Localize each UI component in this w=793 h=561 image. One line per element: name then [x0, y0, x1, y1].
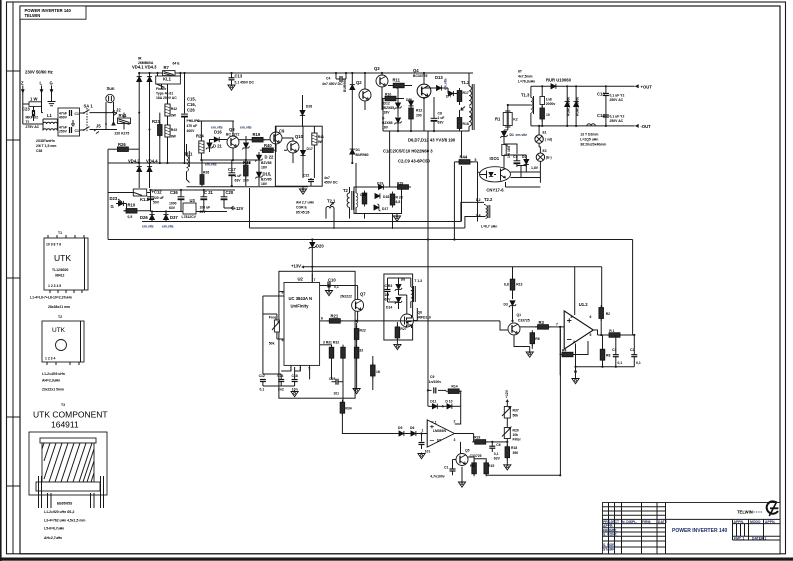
svg-text:em.vite: em.vite: [205, 163, 217, 167]
zener D3: [504, 301, 517, 323]
svg-text:+13V: +13V: [291, 264, 301, 269]
svg-text:R14: R14: [451, 384, 457, 388]
opamp output wire: [454, 433, 474, 435]
svg-text:PROJECT: PROJECT: [603, 520, 620, 524]
svg-text:0,1: 0,1: [494, 452, 499, 456]
svg-text:R21: R21: [331, 314, 339, 319]
diode D1: [350, 148, 369, 157]
capacitor C10a: [221, 190, 234, 208]
svg-text:28x38x21 mm: 28x38x21 mm: [48, 305, 70, 309]
trimmer R20: [502, 427, 521, 447]
svg-text:TELWIN: TELWIN: [737, 510, 753, 515]
svg-text:C16,: C16,: [187, 102, 196, 107]
rectifier diode RURU10060 b: [574, 86, 580, 126]
bus B: [108, 240, 633, 335]
margin tick: [7, 277, 21, 279]
switch SA1: [83, 104, 117, 133]
winding T2.1: [326, 199, 336, 212]
bottom wire U1.2: [576, 366, 635, 368]
svg-text:23x22x1 5mm: 23x22x1 5mm: [42, 388, 64, 392]
svg-text:RUR U10060: RUR U10060: [546, 78, 572, 83]
svg-text:R17: R17: [463, 91, 469, 95]
svg-text:UTK: UTK: [54, 253, 71, 263]
svg-text:10 9 8 7 6: 10 9 8 7 6: [46, 243, 61, 247]
T2 pin ticks: [47, 362, 79, 365]
capacitor C10b: [320, 278, 339, 296]
svg-text:G: G: [111, 204, 114, 209]
svg-text:101: 101: [425, 450, 431, 454]
svg-text:L: L: [40, 81, 43, 86]
capacitor C6: [489, 442, 500, 461]
svg-text:R12: R12: [416, 109, 422, 113]
svg-text:em.vite: em.vite: [142, 225, 154, 229]
svg-text:1 uF: 1 uF: [438, 116, 445, 120]
transformer T2.2: [476, 197, 498, 229]
svg-text:64 E: 64 E: [173, 62, 181, 66]
svg-text:1 W: 1 W: [30, 97, 37, 102]
T3 bobbin bottom bar: [36, 482, 100, 491]
svg-text:UTK COMPONENT: UTK COMPONENT: [33, 410, 108, 420]
resistor R6: [530, 330, 540, 349]
diode VD4.1: [137, 73, 142, 113]
resistor R1b: [607, 329, 636, 337]
svg-text:R38: R38: [243, 160, 251, 165]
svg-text:AH 2,7 uHn: AH 2,7 uHn: [296, 201, 314, 205]
svg-text:9W: 9W: [171, 135, 177, 139]
ground R6: [526, 351, 533, 357]
ground R18: [504, 464, 511, 470]
svg-text:400V: 400V: [59, 116, 68, 120]
-OUT arrow: [635, 124, 651, 129]
svg-text:R27: R27: [400, 327, 406, 331]
resistor R42 3W: [165, 84, 177, 163]
diode D17: [374, 204, 388, 211]
svg-text:390: 390: [513, 451, 519, 455]
svg-text:R18: R18: [463, 122, 469, 126]
svg-text:UTK: UTK: [52, 327, 66, 334]
svg-text:STAMP.: STAMP.: [603, 548, 615, 552]
resistor R19b: [239, 132, 266, 142]
resistor R2 opto: [502, 144, 511, 168]
op-amp U1.2: [564, 302, 593, 349]
svg-text:1: 1: [422, 429, 424, 433]
svg-text:L1-2=4G9 uHn: L1-2=4G9 uHn: [42, 372, 65, 376]
svg-text:D17: D17: [382, 207, 388, 211]
svg-text:R41: R41: [318, 135, 324, 139]
svg-text:8: 8: [571, 315, 573, 319]
title box top-left: [20, 6, 86, 19]
svg-text:D1: D1: [356, 148, 360, 152]
svg-text:63V: 63V: [385, 298, 392, 302]
svg-text:D6,D7,D12 43 YV3/8 190: D6,D7,D12 43 YV3/8 190: [408, 138, 456, 143]
snubber cap 1n8: [540, 86, 555, 108]
svg-text:13 T D2mm: 13 T D2mm: [580, 133, 598, 137]
diode D28: [300, 95, 312, 126]
zener D15: [255, 172, 271, 187]
op-amp U1.1: [422, 420, 456, 448]
svg-text:290: 290: [416, 114, 422, 118]
svg-text:L5-6=6,7uHn: L5-6=6,7uHn: [44, 527, 64, 531]
opto aux wires: [504, 144, 541, 187]
resistor R40: [260, 143, 276, 152]
svg-text:KL1: KL1: [163, 77, 172, 82]
bus feed vertical: [249, 188, 251, 228]
svg-text:6,8: 6,8: [396, 200, 401, 204]
svg-text:BUR960: BUR960: [343, 79, 347, 92]
svg-text:50k: 50k: [269, 342, 275, 346]
transformer T2: [343, 187, 354, 219]
regulator U3: [182, 198, 197, 219]
svg-text:CNY17-6: CNY17-6: [486, 188, 504, 193]
node 7: [556, 322, 564, 375]
svg-text:3W: 3W: [171, 114, 177, 118]
diode VD4.4: [147, 130, 152, 189]
svg-text:63V: 63V: [235, 179, 242, 183]
svg-text:1,2: 1,2: [476, 198, 481, 202]
bus em.vite line: [142, 221, 461, 223]
svg-text:4n7: 4n7: [324, 176, 330, 180]
svg-text:3 R31 R32: 3 R31 R32: [323, 340, 339, 344]
svg-text:MODO: MODO: [750, 520, 761, 524]
svg-text:63V: 63V: [494, 457, 501, 461]
relay contact K1.2: [130, 189, 151, 202]
svg-text:2/6 T 1,5 mm: 2/6 T 1,5 mm: [36, 144, 56, 148]
svg-text:D 10: D 10: [445, 399, 452, 403]
diode D output: [551, 84, 556, 89]
svg-text:1W 1E8: 1W 1E8: [507, 146, 511, 158]
svg-text:U2: U2: [298, 276, 304, 281]
svg-text:D20: D20: [316, 244, 324, 249]
svg-text:0,5: 0,5: [128, 215, 133, 219]
svg-text:( vd): ( vd): [545, 138, 552, 142]
svg-text:18V: 18V: [384, 111, 391, 115]
svg-text:7: 7: [556, 322, 558, 326]
svg-text:4x7,5mm: 4x7,5mm: [518, 75, 533, 79]
svg-text:4,7n100v: 4,7n100v: [430, 475, 444, 479]
resistor R10: [124, 196, 151, 219]
svg-text:470 uF: 470 uF: [187, 124, 198, 128]
svg-text:R8: R8: [606, 354, 610, 358]
svg-text:D1: D1: [510, 133, 514, 137]
margin tick: [7, 139, 21, 141]
capacitor C12b: [259, 374, 266, 392]
resistor R19c: [472, 434, 495, 445]
input diode D9: [396, 426, 404, 436]
svg-text:1K: 1K: [376, 370, 381, 374]
svg-text:R2: R2: [606, 312, 610, 316]
svg-text:Sun: Sun: [107, 86, 115, 91]
svg-text:L3-4=762 uHn 4,5x1,5 mm: L3-4=762 uHn 4,5x1,5 mm: [44, 519, 85, 523]
bus line L2: [250, 227, 465, 229]
svg-text:D23: D23: [110, 196, 118, 201]
svg-text:VD4.1 VD4.3: VD4.1 VD4.3: [132, 65, 157, 70]
T2 circle: [56, 340, 67, 351]
resistor R18c: [505, 444, 518, 464]
svg-text:6: 6: [471, 115, 473, 119]
margin tick: [7, 416, 21, 418]
svg-text:0,1 450V DC: 0,1 450V DC: [235, 81, 255, 85]
paper bottom edge: [0, 558, 793, 561]
ground snubber: [393, 214, 400, 222]
svg-text:1,8V: 1,8V: [531, 166, 539, 170]
resistor R17: [457, 88, 469, 105]
capacitor C1b: [430, 464, 455, 479]
svg-text:3: 3: [454, 438, 456, 442]
svg-text:R24: R24: [196, 134, 204, 139]
diode D11: [428, 399, 443, 409]
svg-text:5: 5: [590, 333, 592, 337]
capacitor C4: [322, 73, 346, 86]
terminal L: [40, 81, 44, 113]
trimmer tap wire: [495, 441, 507, 443]
svg-text:UniFinity: UniFinity: [291, 304, 310, 309]
resistor R34: [340, 400, 396, 434]
svg-text:0,1: 0,1: [618, 361, 623, 365]
svg-text:R19: R19: [253, 132, 261, 137]
capacitor C21: [200, 190, 214, 214]
output top rail: [531, 85, 635, 87]
svg-text:R10: R10: [128, 203, 136, 208]
svg-text:D14: D14: [386, 306, 392, 310]
svg-text:RURU10060: RURU10060: [567, 97, 571, 116]
resistor R26b: [200, 170, 209, 186]
capacitor CR3: [385, 278, 393, 302]
svg-text:L7812CV: L7812CV: [182, 215, 197, 219]
pin 8: [279, 291, 284, 295]
resistor R27: [395, 322, 407, 343]
svg-text:16A 250V AC: 16A 250V AC: [156, 96, 177, 100]
svg-text:4n7 450V DC: 4n7 450V DC: [322, 82, 343, 86]
svg-text:R37: R37: [513, 409, 519, 413]
wire opamp top feedback: [455, 406, 461, 424]
svg-text:C4: C4: [326, 77, 330, 81]
svg-text:C38: C38: [36, 149, 42, 153]
svg-text:R44: R44: [460, 155, 468, 160]
resistor R2: [599, 305, 610, 335]
svg-text:C14: C14: [277, 374, 283, 378]
resistor R21: [320, 314, 352, 324]
transistor Q3: [374, 66, 388, 110]
svg-text:IR: IR: [138, 57, 142, 61]
transformer T2 box: [42, 321, 84, 362]
svg-text:Q6: Q6: [418, 311, 423, 315]
svg-text:D3: D3: [504, 303, 508, 307]
drawing title cell: [665, 519, 667, 553]
resistor R22: [354, 323, 366, 347]
transformer T1 box: [44, 238, 88, 290]
svg-text:0,1 uF Y2: 0,1 uF Y2: [610, 115, 625, 119]
capacitor C22: [303, 174, 338, 187]
svg-text:1 2 3 4: 1 2 3 4: [45, 357, 55, 361]
capacitor C14 out: [597, 113, 624, 123]
svg-text:C6: C6: [496, 443, 500, 447]
svg-text:Q7: Q7: [360, 292, 366, 297]
capacitor C8: [431, 97, 445, 131]
svg-text:38:20x20x40mm: 38:20x20x40mm: [580, 143, 606, 147]
junction on bus B: [453, 238, 455, 240]
T3 transformer drawing outer box: [29, 432, 107, 495]
transformer T1.2: [461, 73, 474, 131]
svg-text:C13: C13: [235, 74, 243, 79]
driver supply rail: [197, 121, 234, 141]
svg-text:C8: C8: [438, 112, 442, 116]
svg-text:R6: R6: [535, 337, 539, 341]
svg-text:6: 6: [321, 317, 323, 321]
ground U2: [353, 366, 360, 394]
svg-text:1M: 1M: [385, 293, 390, 297]
capacitor C36: [169, 190, 184, 212]
svg-text:T3: T3: [61, 403, 65, 407]
box feed wires: [388, 278, 418, 321]
diode D2: [343, 73, 355, 163]
+12V label vertical: [505, 389, 509, 406]
svg-text:D15,: D15,: [263, 172, 272, 177]
choke L1: [23, 113, 58, 131]
resistor R4: [560, 341, 589, 357]
svg-text:U1.2: U1.2: [579, 302, 589, 307]
svg-text:18V: 18V: [261, 182, 268, 186]
pin4 ground: [572, 344, 579, 384]
svg-text:3n2: 3n2: [278, 388, 284, 392]
svg-text:2: 2: [454, 420, 456, 424]
svg-text:25V: 25V: [200, 210, 207, 214]
zener D21: [206, 140, 223, 153]
svg-text:C9: C9: [279, 129, 285, 134]
transistor Q2: [356, 73, 371, 110]
pin 4: [277, 338, 284, 343]
svg-text:1 uF: 1 uF: [235, 174, 242, 178]
svg-text:R43: R43: [171, 128, 177, 132]
diode D14: [386, 297, 402, 309]
resistor R11: [388, 78, 412, 88]
+OUT arrow: [635, 84, 653, 89]
svg-text:D16: D16: [214, 130, 222, 135]
svg-text:C26: C26: [187, 108, 195, 113]
pin stubs: [291, 365, 310, 379]
svg-text:1n8: 1n8: [546, 98, 552, 102]
svg-text:101: 101: [333, 391, 339, 395]
capacitor C28: [360, 191, 367, 207]
svg-text:T2.2: T2.2: [484, 197, 493, 202]
resistor R33: [354, 345, 363, 366]
svg-text:R7: R7: [164, 65, 170, 70]
svg-text:C1: C1: [75, 112, 79, 116]
junction input: [420, 432, 422, 434]
rectifier diode RURU10060 a: [565, 86, 571, 126]
svg-text:D11: D11: [430, 399, 436, 403]
bottom rail of psu: [151, 211, 228, 213]
capacitor C11: [418, 434, 430, 459]
B+ top rail: [139, 72, 473, 74]
svg-text:ISO1: ISO1: [490, 156, 500, 161]
svg-text:BZX85: BZX85: [384, 106, 395, 110]
earth G: [48, 102, 56, 106]
svg-text:L1-4=L6-7+L8-10=2,37uHn: L1-4=L6-7+L8-10=2,37uHn: [30, 296, 72, 300]
svg-text:Q5: Q5: [465, 448, 470, 452]
+12V rail: [291, 264, 602, 308]
capacitor C14b: [277, 374, 284, 392]
svg-text:R19: R19: [474, 435, 480, 439]
svg-text:R34: R34: [345, 407, 351, 411]
svg-text:63V: 63V: [169, 206, 176, 210]
bottom feedback wire: [486, 329, 560, 476]
svg-text:D37: D37: [170, 215, 178, 220]
svg-text:C2,C9 43-6PC50: C2,C9 43-6PC50: [398, 159, 431, 164]
transistor Q7: [329, 286, 366, 323]
capacitor C17: [228, 160, 241, 186]
svg-text:230V 50/60 Hz: 230V 50/60 Hz: [25, 70, 53, 75]
diode D8b: [395, 278, 405, 296]
svg-text:R1: R1: [495, 117, 501, 122]
svg-text:T 1.3: T 1.3: [414, 279, 422, 283]
lamp E1: [535, 126, 552, 143]
svg-text:Q3: Q3: [374, 66, 380, 71]
snubber res 10: [540, 106, 550, 126]
svg-text:TELWIN: TELWIN: [25, 13, 41, 18]
resistor R1 out: [495, 105, 518, 130]
ground Q5: [458, 467, 465, 488]
svg-text:D2: D2: [522, 155, 526, 159]
svg-text:T2: T2: [58, 315, 62, 319]
wire Q4 collector to D13: [424, 87, 432, 89]
svg-text:J2: J2: [116, 108, 121, 113]
transistor Q5: [453, 442, 482, 466]
zener D20: [309, 238, 325, 282]
capacitor C13 top: [228, 73, 255, 90]
resistor R3: [535, 320, 560, 329]
svg-text:C33725: C33725: [470, 454, 482, 458]
opto ISO1: [480, 156, 511, 193]
transistor Q8: [226, 127, 240, 148]
diode D1 opto: [500, 130, 527, 144]
svg-text:Q2: Q2: [356, 80, 362, 85]
right sub-table: [732, 519, 734, 540]
capacitor C3: [612, 335, 622, 367]
svg-text:1 2 3 4 5: 1 2 3 4 5: [48, 284, 61, 288]
input diode D6: [404, 426, 427, 436]
svg-text:400V: 400V: [187, 129, 196, 133]
X caps box: [58, 108, 80, 136]
svg-text:AH=2,3uHn: AH=2,3uHn: [42, 379, 60, 383]
junction dots: [138, 112, 140, 114]
terminal Z: [21, 81, 25, 105]
svg-text:S. NOR.: S. NOR.: [603, 543, 616, 547]
earth in box: [71, 120, 75, 126]
svg-text:R 28: R 28: [396, 196, 403, 200]
svg-text:10k: 10k: [513, 433, 519, 437]
svg-text:L=76,3uHn: L=76,3uHn: [518, 80, 535, 84]
diode D18: [375, 193, 389, 199]
resistor R24: [196, 134, 204, 161]
capacitor C9: [428, 375, 446, 394]
svg-text:100 uF: 100 uF: [200, 206, 211, 210]
pin 7: [312, 274, 315, 283]
svg-text:R26: R26: [203, 170, 209, 174]
svg-text:9W: 9W: [318, 140, 324, 144]
svg-text:L1-2=920 uHn Ø1,2: L1-2=920 uHn Ø1,2: [44, 510, 75, 514]
svg-text:6,8: 6,8: [504, 282, 509, 286]
zener D12: [384, 99, 402, 118]
svg-text:4: 4: [573, 340, 575, 344]
svg-text:1000: 1000: [169, 202, 177, 206]
diode VD4.3: [147, 73, 152, 130]
diode D19: [377, 182, 383, 190]
svg-text:+C12: +C12: [152, 190, 163, 195]
svg-text:+OUT: +OUT: [641, 84, 653, 89]
svg-text:D9: D9: [398, 426, 402, 430]
left feed wire: [108, 163, 135, 240]
svg-text:7: 7: [471, 96, 473, 100]
